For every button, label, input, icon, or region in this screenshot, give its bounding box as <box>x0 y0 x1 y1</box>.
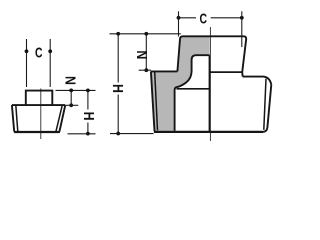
bottom extension line <box>110 133 154 135</box>
section material gray fill <box>151 37 210 131</box>
body ledge left <box>151 70 178 72</box>
body bottom edge <box>154 131 263 133</box>
H dimension line upper segment <box>87 90 89 109</box>
stem outline <box>26 91 53 106</box>
bore step vertical edge <box>208 55 210 132</box>
dim C dot right <box>48 49 52 53</box>
base right inner slant <box>56 105 62 132</box>
C extension line right <box>241 11 243 47</box>
H dimension line lower segment <box>87 123 89 134</box>
body top edge right with rounded corner <box>243 77 272 85</box>
N dim line top dot <box>69 89 73 93</box>
N dimension line <box>145 34 147 70</box>
H bottom dot <box>116 132 120 136</box>
svg-text:C: C <box>35 45 43 61</box>
H dimension line lower segment <box>117 95 119 134</box>
section bore S-profile <box>175 55 210 131</box>
svg-text:C: C <box>200 11 208 27</box>
bore step horizontal edge <box>177 88 210 90</box>
H bottom dot <box>86 132 90 136</box>
base top shoulder line <box>12 104 65 106</box>
stem top extension line (N/H datum) <box>56 89 96 91</box>
svg-text:N: N <box>62 76 78 85</box>
body left outer edge <box>151 71 155 131</box>
centerline left view <box>40 89 42 140</box>
dim C line right segment <box>211 17 242 19</box>
body right inner line <box>264 79 266 130</box>
H dim line top dot <box>86 89 90 93</box>
H top dot <box>116 32 120 36</box>
C extension line left <box>178 11 180 36</box>
ledge right of centerline <box>209 71 242 73</box>
dim C extension line left <box>26 39 28 87</box>
N dimension line <box>70 90 72 105</box>
dim C dot left <box>25 49 29 53</box>
head outline (top edge, left and right sides) <box>177 36 246 76</box>
N top dot <box>144 32 148 36</box>
base left outer slant <box>12 105 14 132</box>
svg-text:H: H <box>110 84 126 93</box>
ledge extension line <box>139 69 151 71</box>
shoulder extension line <box>66 104 78 106</box>
base bottom edge <box>14 131 60 133</box>
N bottom dot <box>69 103 73 107</box>
bottom extension line <box>68 133 96 135</box>
top extension line (H/N datum) <box>110 33 181 35</box>
dim C extension line right <box>49 39 51 87</box>
base left inner slant <box>16 105 18 132</box>
dim C line left segment <box>179 17 197 19</box>
H dimension line upper segment <box>117 34 119 83</box>
dim C dot right <box>240 16 244 20</box>
svg-text:N: N <box>134 50 150 59</box>
base right outer slant <box>59 105 65 132</box>
body left inner line <box>155 72 158 131</box>
dim C dot left <box>177 16 181 20</box>
centerline right view <box>209 27 211 141</box>
N bottom dot <box>144 68 148 72</box>
svg-text:H: H <box>81 112 97 121</box>
body right outer edge <box>263 85 272 132</box>
